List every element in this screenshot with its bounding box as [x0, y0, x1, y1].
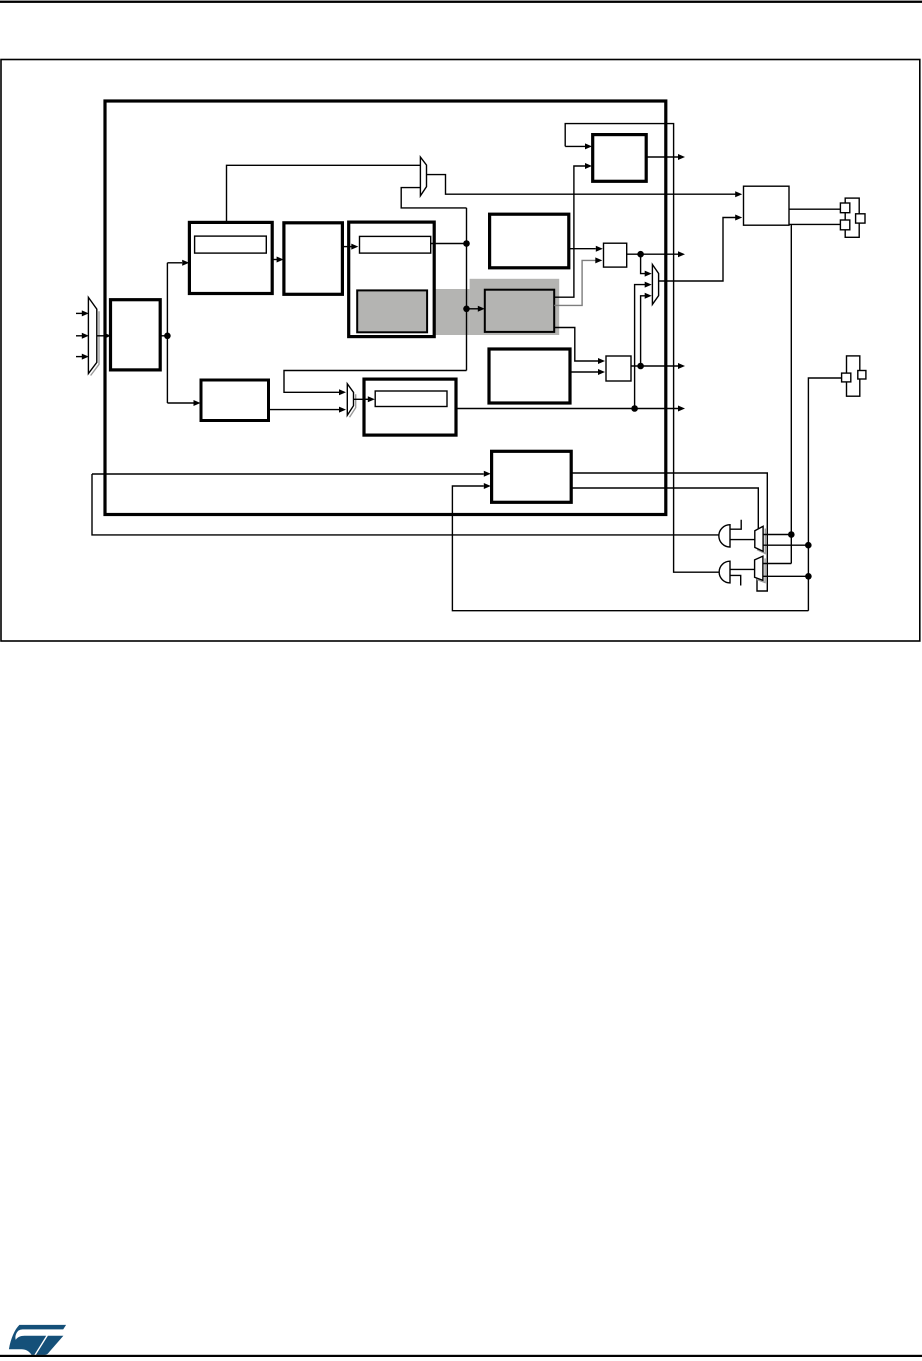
- clock block B0: [111, 300, 161, 370]
- gray highlight band: [353, 279, 560, 335]
- wire mux M2 output to B6 input 2: [659, 215, 743, 282]
- chip boundary: [105, 101, 666, 515]
- AND gate G2: [719, 561, 730, 583]
- wire B12 output 1 to B5 input 2: [554, 163, 592, 297]
- wire B5 output arrow: [646, 154, 685, 160]
- block B7: [604, 243, 627, 267]
- wire mux M5 output 1 up the B6 vertical: [763, 563, 791, 565]
- wire bottom-right route to B14 input 2: [452, 483, 808, 611]
- wire B1 top entry from mux M1 input line: [227, 165, 421, 222]
- wire lower pin connector vertical: [808, 378, 841, 611]
- wire vertical trunk x466 with branch to mux M1 input 2: [401, 188, 466, 371]
- junction B11 output line: [631, 405, 638, 412]
- junction B9 output: [637, 363, 644, 370]
- wire trunk to gray block B12: [467, 306, 485, 312]
- wire trunk loop to mux M3 input 1: [284, 371, 467, 396]
- register sub-box of B11: [375, 391, 447, 407]
- wire B1 to B2: [272, 257, 283, 263]
- block B11: [364, 379, 456, 435]
- junction B3 register output: [463, 240, 470, 247]
- mux M5: [755, 556, 766, 582]
- wire B5 feedback loop and AND trunk: [565, 124, 718, 573]
- register sub-box of B1: [195, 236, 267, 253]
- wire B7 output with branch to mux M2 input 1: [627, 251, 685, 276]
- wire mux M0 input 2: [76, 333, 89, 339]
- wire mux M0 input 1: [76, 310, 89, 316]
- wire mux M0 output to clock block: [97, 333, 111, 339]
- wire B10 output to mux M3 input 2: [269, 407, 347, 413]
- junction B7 output: [637, 251, 644, 258]
- wire B4 output to B7 input 1: [569, 246, 603, 252]
- wire mux M4 output 1: [763, 534, 791, 536]
- lower pin connector: [842, 356, 866, 396]
- wire G2 output to mux M5: [730, 568, 755, 570]
- junction B12 input: [463, 306, 470, 313]
- gray sub-block of B3: [357, 290, 427, 332]
- wire G1 output to mux M4: [730, 539, 755, 541]
- register sub-box of B3: [360, 236, 431, 253]
- gray block B12: [485, 290, 554, 332]
- wire mux M0 input 3: [76, 354, 89, 360]
- wire mux M1 output to B6 input 1: [427, 175, 743, 198]
- upper pin connector: [840, 198, 865, 237]
- page bottom rule: [0, 1355, 922, 1357]
- wire B14 output 1 to mux M5 bottom entry: [571, 473, 767, 591]
- mux M4: [755, 526, 766, 553]
- wire B12 output 3 to B9 input 1: [554, 328, 605, 365]
- page top rule: [0, 1, 922, 3]
- wire B6 output 2 to pin connector with branch down: [789, 224, 840, 563]
- block B14: [492, 451, 572, 502]
- mux M3: [347, 384, 355, 418]
- wire B13 output to B9 input 2: [570, 369, 605, 375]
- block B13: [489, 349, 570, 403]
- wire mux M5 output 2 to pin vertical: [763, 575, 809, 577]
- wire G2 bottom tap: [730, 575, 741, 585]
- wire B3 register output to vertical trunk: [431, 243, 467, 245]
- AND gate G1: [719, 525, 730, 547]
- gray wire B12 output 2 to B7 input 2: [554, 257, 602, 305]
- wire B11 output long line with branch to mux M2 input 2: [456, 282, 685, 412]
- block B6: [744, 186, 790, 225]
- wire B9 output with branch to mux M2 input 3: [631, 293, 685, 369]
- wire clock output trunk: [160, 260, 200, 406]
- wire B6 output 1 to pin connector: [789, 208, 840, 210]
- junction M4 output on vertical from B6: [788, 531, 795, 538]
- wire mux M3 output to B11 register: [354, 396, 375, 402]
- wire left U-route to B14 input 1 and AND gates: [92, 471, 719, 535]
- wire B14 output 2 to mux M4 top entry: [571, 488, 758, 529]
- wire G1 top tap: [730, 520, 741, 529]
- ST logo: [9, 1325, 66, 1355]
- block B4: [490, 214, 569, 268]
- wire mux M4 output 2: [763, 544, 808, 546]
- block B9: [606, 356, 631, 381]
- wire B2 to B3 register: [342, 244, 358, 250]
- block B3: [349, 222, 435, 337]
- junction M5 output 2 on pin vertical: [805, 573, 812, 580]
- mux M2: [652, 265, 658, 305]
- junction clock output: [164, 333, 171, 340]
- block B1 prescaler: [189, 222, 272, 293]
- block B10: [201, 380, 269, 421]
- block B2: [284, 223, 343, 294]
- mux M1: [420, 157, 426, 196]
- junction M4 output 2 on pin vertical: [805, 542, 812, 549]
- figure frame: [1, 60, 920, 642]
- block B5: [593, 135, 647, 182]
- input mux M0: [88, 297, 99, 375]
